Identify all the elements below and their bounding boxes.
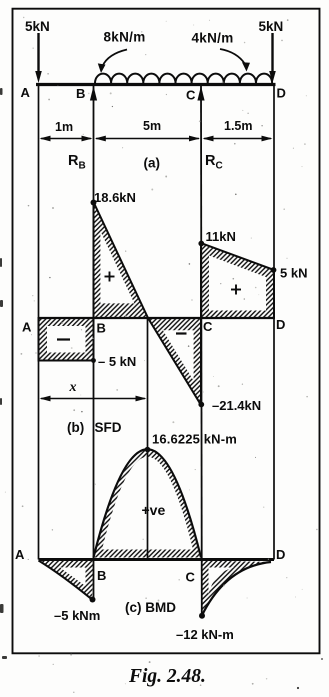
svg-text:–21.4kN: –21.4kN	[212, 398, 261, 413]
svg-text:1m: 1m	[55, 120, 73, 134]
svg-text:5 kN: 5 kN	[280, 266, 307, 281]
svg-text:Fig. 2.48.: Fig. 2.48.	[128, 666, 206, 687]
point load 5kN at A	[25, 19, 50, 83]
support reaction arrow at B	[90, 86, 97, 101]
dimension 1.5m	[203, 119, 273, 141]
minus sign in A-B rectangle	[57, 338, 70, 340]
beam A-D	[36, 83, 276, 86]
BMD baseline A-D	[39, 558, 275, 561]
dimension x	[40, 380, 147, 401]
svg-text:(a): (a)	[144, 156, 161, 171]
BMD negative region A-B (hatched ring)	[39, 561, 94, 600]
svg-text:B: B	[76, 86, 85, 101]
peak dot 18.6 kN	[91, 200, 97, 206]
dot at -12 kN-m	[199, 613, 205, 619]
svg-text:+ve: +ve	[142, 502, 166, 518]
svg-text:B: B	[97, 321, 106, 336]
svg-text:C: C	[186, 570, 196, 585]
svg-text:(c) BMD: (c) BMD	[125, 600, 176, 615]
svg-text:16.6225 kN-m: 16.6225 kN-m	[152, 432, 237, 447]
svg-text:– 5 kN: – 5 kN	[98, 354, 136, 369]
dimension 5m	[95, 119, 200, 141]
svg-text:D: D	[276, 317, 285, 332]
support reaction arrow at C	[197, 86, 204, 101]
svg-text:–12 kN-m: –12 kN-m	[176, 627, 234, 642]
vertical line at C	[200, 84, 203, 616]
plus sign in B triangle	[105, 272, 115, 282]
vertical line at D	[273, 84, 275, 560]
dot at 11 kN	[198, 241, 204, 247]
svg-text:x: x	[69, 380, 77, 395]
svg-text:C: C	[203, 319, 213, 334]
svg-text:B: B	[97, 568, 106, 583]
vertical line at B	[93, 84, 95, 600]
corner dot at B/-5	[91, 358, 96, 363]
BMD positive parabola B-C (hatched ring)	[94, 449, 202, 557]
UDL humps B to D	[95, 74, 272, 83]
svg-text:11kN: 11kN	[206, 229, 236, 244]
dot at 16.6225 kN-m peak	[145, 447, 151, 453]
dot at -21.4 kN	[198, 402, 204, 408]
svg-text:4kN/m: 4kN/m	[192, 31, 234, 46]
svg-text:D: D	[277, 86, 286, 101]
svg-text:SFD: SFD	[95, 420, 122, 435]
SFD positive quad C-D (hatched ring)	[201, 243, 274, 318]
svg-text:18.6kN: 18.6kN	[94, 190, 136, 205]
svg-text:8kN/m: 8kN/m	[104, 30, 146, 45]
SFD negative triangle B-C (hatched ring)	[148, 318, 201, 405]
dot at 5 kN	[271, 267, 277, 273]
svg-text:A: A	[15, 547, 25, 562]
svg-text:C: C	[186, 88, 196, 103]
svg-text:5kN: 5kN	[259, 19, 284, 34]
plus sign in C-D quad	[231, 285, 241, 295]
svg-text:1.5m: 1.5m	[224, 119, 253, 133]
svg-text:(b): (b)	[67, 420, 84, 435]
svg-text:D: D	[276, 547, 285, 562]
label 4kN/m with leader arrow	[192, 31, 251, 72]
point load 5kN at D	[259, 19, 284, 83]
BMD negative region C-D (hatched ring)	[201, 561, 271, 616]
vertical line at A	[38, 84, 40, 560]
svg-text:5kN: 5kN	[25, 19, 50, 34]
SFD baseline A-D	[39, 317, 275, 319]
dimension 1m	[40, 120, 93, 141]
label 8kN/m with leader arrow	[98, 30, 146, 74]
svg-text:A: A	[21, 85, 31, 100]
SFD negative rectangle A-B (hatched ring)	[39, 318, 94, 361]
SFD positive triangle at B (hatched ring)	[94, 202, 149, 318]
svg-text:–5 kNm: –5 kNm	[54, 608, 100, 623]
svg-text:5m: 5m	[143, 119, 161, 133]
svg-text:A: A	[22, 320, 32, 335]
BMD max-ordinate line at x	[147, 318, 149, 559]
minus sign in B-C triangle	[176, 332, 187, 334]
dot at -5 kNm	[90, 597, 96, 603]
